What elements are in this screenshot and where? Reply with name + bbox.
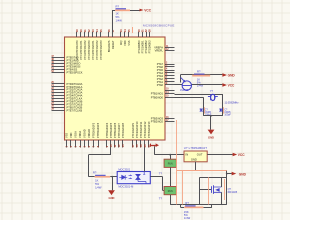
wire crystal loop bottom — [203, 115, 223, 117]
U1 left pin 25 (PTD5/TCLKA) — [51, 97, 82, 101]
resistor R? (bottom sense) — [184, 201, 203, 208]
U1 right pin 14 (PTB1/AD1) — [151, 91, 175, 96]
power port GND (bottom-left, down arrow) — [108, 190, 115, 200]
U1 left pin 51 (PTE4/SS) — [51, 68, 77, 72]
wire supply to regulator IN — [155, 146, 185, 155]
svg-text:5%: 5% — [95, 182, 99, 186]
U1 bottom pin 59 (PTF3/AD1P11) — [139, 121, 143, 147]
U1 bottom pin 6 (VDDAD) — [87, 129, 91, 148]
U1 top pin 33 (IRQ) — [119, 29, 123, 45]
U1 top pin 32 (PTG2/KBI2) — [144, 29, 148, 54]
wire drops to bottom resistor — [181, 205, 212, 208]
transistor Q? MOSFET — [212, 185, 222, 194]
svg-text:MOC3021-M: MOC3021-M — [118, 185, 133, 189]
U1 left pin 47 (PTE0/TxD) — [51, 55, 78, 60]
U1 left pin 29 (PTE7/TCLKB) — [51, 108, 82, 112]
svg-text:PTF2/AD1P10: PTF2/AD1P10 — [135, 121, 139, 138]
wire sensor T? to sensor T? — [170, 167, 172, 186]
wire supply rail to sensor T? — [169, 154, 171, 159]
highlighted net wire (vertical long) — [176, 120, 178, 205]
wire optocoupler output to sensor T? — [150, 177, 164, 191]
wire sensor bottom to bottom rail — [170, 195, 172, 205]
highlighted net wire (vertical 2) — [182, 170, 184, 204]
highlighted net wire (horizontal) — [177, 170, 227, 172]
svg-text:PTB0/AD0: PTB0/AD0 — [151, 95, 164, 99]
U1 right pin 12 (VREFL) — [155, 49, 175, 53]
resistor R? (right, to GND) — [192, 70, 210, 77]
svg-text:T?: T? — [159, 197, 163, 201]
svg-text:RUN: RUN — [168, 164, 173, 166]
svg-text:PTC3/TPM2CH0: PTC3/TPM2CH0 — [87, 40, 91, 60]
U1 bottom pin 60 (PTF4/AD1P12) — [143, 121, 147, 148]
R? value labels (right) — [197, 77, 204, 87]
wire left vertical of crystal loop — [203, 97, 205, 116]
svg-text:PTA0: PTA0 — [157, 83, 164, 87]
svg-text:12: 12 — [117, 144, 121, 147]
wire right vertical of crystal loop — [222, 94, 224, 116]
Y? value 11.0592MHz — [225, 101, 240, 104]
U1 top pin 31 (PTG1/KBI1) — [140, 29, 144, 54]
svg-text:1K: 1K — [95, 179, 98, 183]
U1 top pin 39 (PTC0/TPM1CH0) — [75, 29, 79, 60]
svg-text:41: 41 — [83, 29, 87, 32]
U? value MOC3021-M — [118, 185, 133, 189]
svg-text:30: 30 — [137, 29, 141, 32]
svg-text:PTG1/KBI1: PTG1/KBI1 — [141, 40, 145, 53]
U1 bottom pin 11 (PTB6/AD1P6) — [113, 122, 117, 147]
svg-text:IRQ: IRQ — [119, 40, 123, 45]
svg-text:GND: GND — [239, 172, 247, 176]
svg-text:PTB1/AD1: PTB1/AD1 — [151, 92, 164, 96]
R? value labels (opto series) — [95, 179, 102, 190]
svg-text:R?: R? — [116, 4, 120, 8]
photo device D? (circle symbol) — [181, 77, 192, 90]
U1 top pin 43 (PTC4/TPM2CH1) — [91, 29, 95, 60]
svg-text:PTF5/AD1P13: PTF5/AD1P13 — [147, 121, 151, 138]
U1 bottom pin 61 (PTF5/AD1P13) — [147, 121, 151, 148]
svg-text:PTC1/TPM1CH1: PTC1/TPM1CH1 — [79, 40, 83, 60]
U1 top pin 34 (VDD) — [123, 29, 127, 46]
U1 top pin 41 (PTC2/TPM1CH2) — [83, 29, 87, 60]
svg-text:T?: T? — [159, 172, 163, 176]
sensor T? (lower green box) — [164, 187, 176, 195]
T? designator (lower) — [159, 197, 163, 201]
power port GND (crystal, down arrow) — [208, 130, 215, 140]
svg-text:VDD: VDD — [123, 40, 127, 46]
regulator U? L7805 body — [184, 151, 207, 162]
svg-text:GND: GND — [109, 196, 115, 200]
U1 top pin 30 (PTG0/KBI0) — [137, 29, 141, 54]
wire drain up / source down — [221, 177, 223, 204]
U1 top pin 42 (PTC3/TPM2CH0) — [87, 29, 91, 60]
resistor R? (RESET pull-up) — [115, 4, 130, 11]
svg-text:VDDAD: VDDAD — [87, 129, 91, 138]
no-ERC marker on top pin — [132, 27, 134, 33]
wire regulator OUT to VCC — [207, 154, 232, 156]
svg-text:VCC: VCC — [144, 8, 151, 12]
svg-text:PTB2/AD2: PTB2/AD2 — [151, 120, 164, 124]
svg-text:43: 43 — [91, 29, 95, 32]
svg-text:42: 42 — [87, 29, 91, 32]
U1 right pin 10 (stub) — [165, 89, 175, 91]
U1 right pin 2 (PTA7) — [157, 62, 175, 66]
svg-text:VDD: VDD — [69, 132, 73, 138]
svg-text:PTB7/AD1P7: PTB7/AD1P7 — [117, 122, 121, 138]
svg-text:5%: 5% — [116, 15, 120, 19]
U1 bottom pin 58 (PTF2/AD1P10) — [135, 121, 139, 148]
U1 bottom pin 13 (PTF0/AD1P8) — [121, 122, 125, 147]
svg-text:PTG3/KBI3: PTG3/KBI3 — [148, 40, 152, 53]
svg-text:VSSA: VSSA — [74, 131, 78, 138]
power port GND (right of regulator) — [232, 172, 247, 177]
U1 left pin 21 (PTD1/TCH1A) — [51, 85, 82, 89]
svg-text:PTC4/TPM2CH1: PTC4/TPM2CH1 — [91, 40, 95, 60]
U1 right pin 8 (PTA1) — [157, 80, 175, 84]
svg-text:39: 39 — [75, 29, 79, 32]
svg-text:U? L7805ABD2T: U? L7805ABD2T — [184, 146, 208, 150]
U1 bottom pin 12 (PTB7/AD1P7) — [117, 122, 121, 147]
U? label MOC3021 — [118, 168, 130, 172]
svg-text:PTB3/AD1P3: PTB3/AD1P3 — [96, 122, 100, 138]
svg-text:VSS: VSS — [65, 133, 69, 138]
U1 bottom pin 3 (VSSA) — [73, 131, 77, 148]
highlighted net wire (vertical 4) — [208, 177, 210, 204]
U1 bottom pin 10 (PTB5/AD1P5) — [109, 122, 113, 147]
power port GND (right, arrow) — [222, 73, 235, 77]
U1 right pin 4 (PTA5) — [157, 67, 175, 72]
svg-text:VREFL: VREFL — [155, 49, 164, 53]
svg-text:OUT: OUT — [197, 153, 203, 157]
wire regulator GND down and right — [196, 162, 227, 177]
U1 left pin 48 (PTE1/RxD) — [51, 58, 79, 63]
svg-text:R?: R? — [93, 170, 97, 174]
svg-text:1/4W: 1/4W — [116, 18, 123, 22]
U1 bottom pin 4 (VDDA) — [78, 131, 82, 148]
svg-text:Y?: Y? — [210, 89, 214, 93]
svg-text:PTF3/AD1P11: PTF3/AD1P11 — [139, 121, 143, 138]
svg-text:GND: GND — [191, 158, 197, 162]
wire node A vertical from GND-resistor run down to photo device — [180, 75, 182, 83]
U1 top pin 40 (PTC1/TPM1CH1) — [79, 29, 83, 60]
svg-text:33: 33 — [119, 29, 123, 32]
power port VCC (regulator output) — [233, 153, 246, 157]
svg-text:PTF4/AD1P12: PTF4/AD1P12 — [143, 121, 147, 138]
U1 left pin 27 (PTD7/TCH1B) — [51, 102, 82, 106]
U1 bottom pin 8 (PTB3/AD1P3) — [96, 122, 100, 147]
svg-text:PTG2/KBI2: PTG2/KBI2 — [144, 40, 148, 53]
U1 right pin 17 (PTB2/AD2) — [151, 120, 175, 124]
U1 left pin 50 (PTE3/MOSI) — [51, 65, 80, 69]
svg-text:1/4W: 1/4W — [95, 186, 102, 190]
U1 left pin 22 (PTD2/TCH2A) — [51, 88, 82, 92]
svg-text:MC9S08GB60CPUE: MC9S08GB60CPUE — [143, 23, 175, 27]
svg-text:PTB2/AD1P2: PTB2/AD1P2 — [92, 122, 96, 138]
capacitor C? (right load cap) — [219, 107, 231, 116]
wire gate run — [200, 189, 212, 191]
U1 top pin 36 (BKGD/MS) — [107, 29, 111, 52]
wire to GND port (right) — [226, 173, 232, 175]
U1 right pin 6 (PTA3) — [157, 74, 175, 78]
U1 bottom pin 7 (PTB2/AD1P2) — [91, 122, 95, 147]
svg-text:60: 60 — [143, 144, 147, 147]
wire RESET pin to pull-up resistor — [113, 10, 140, 32]
svg-text:1N4148: 1N4148 — [180, 90, 189, 92]
T? designator (upper) — [159, 172, 163, 176]
svg-text:11: 11 — [113, 144, 117, 147]
MCU U1 — [65, 37, 166, 140]
wire MCU pin to optocoupler top — [144, 148, 146, 172]
U1 right pin 15 (PTB0/AD0) — [151, 95, 175, 99]
svg-text:38: 38 — [147, 29, 151, 32]
U1 bottom pin 57 (PTF1/AD1P9) — [131, 122, 135, 147]
U1 left pin 20 (PTD0/TCH0A) — [51, 82, 82, 86]
svg-text:35: 35 — [127, 29, 131, 32]
svg-text:1/4W: 1/4W — [184, 216, 191, 220]
svg-text:PTC6/TPM2CH3: PTC6/TPM2CH3 — [99, 40, 103, 60]
svg-text:PTB6/AD1P6: PTB6/AD1P6 — [113, 122, 117, 138]
svg-text:57: 57 — [131, 144, 135, 147]
svg-text:BKGD/MS: BKGD/MS — [107, 40, 111, 52]
U1 left pin 49 (PTE2/MISO) — [51, 61, 80, 66]
svg-text:R?: R? — [197, 70, 201, 74]
wire MOSFET loop top — [200, 177, 227, 179]
R? value labels 1K 5% 1/4W — [116, 11, 123, 22]
svg-text:VCC: VCC — [238, 153, 245, 157]
wire resistor run to GND port — [180, 74, 222, 76]
svg-text:11.0592MHz: 11.0592MHz — [225, 101, 240, 104]
svg-text:58: 58 — [135, 144, 139, 147]
U1 right pin 16 (PTB3/AD3) — [151, 117, 175, 121]
Q? designator and value IRF1405 — [228, 188, 238, 194]
svg-text:VCC: VCC — [228, 83, 235, 87]
power port VCC (right, arrow) — [222, 83, 235, 87]
U1 right pin 5 (PTA4) — [157, 71, 175, 75]
svg-text:31: 31 — [140, 29, 144, 32]
wire VCC run through photo device D1 — [175, 84, 223, 86]
svg-text:1K: 1K — [116, 11, 119, 15]
wire MCU pin to series resistor (zigzag) — [88, 148, 111, 177]
highlighted net wire (vertical 3) — [224, 179, 226, 200]
wire bottom rail — [170, 204, 227, 206]
svg-text:RESET: RESET — [111, 40, 115, 49]
resistor R? (opto series) — [93, 170, 110, 177]
wire MOSFET loop right vertical — [226, 177, 228, 204]
wire MOSFET loop left vertical — [199, 177, 201, 204]
wire XTAL run (lower) — [175, 97, 204, 99]
svg-text:GND: GND — [208, 136, 214, 140]
U1 top pin 37 (RESET) — [111, 29, 115, 49]
svg-text:VDDA: VDDA — [78, 131, 82, 138]
svg-text:MOC3021: MOC3021 — [118, 168, 130, 172]
U1 right pin 11 (VREFH) — [154, 46, 174, 50]
svg-text:36: 36 — [107, 29, 111, 32]
U1 left pin 52 (PTE5/SPSCK) — [51, 71, 83, 75]
svg-text:PTF0/AD1P8: PTF0/AD1P8 — [121, 122, 125, 138]
U1 left pin 28 (PTE6/TCH2B) — [51, 105, 82, 109]
svg-text:PTC0/TPM1CH0: PTC0/TPM1CH0 — [75, 40, 79, 60]
svg-text:PTE5/SPSCK: PTE5/SPSCK — [67, 71, 83, 75]
U1 left pin 24 (PTD4/TCH4A) — [51, 93, 82, 98]
U1 right pin 9 (PTA0) — [157, 83, 175, 87]
capacitor C? (left load cap) — [200, 107, 212, 116]
svg-text:13: 13 — [121, 144, 125, 147]
U? designator L7805ABD2T — [184, 146, 208, 150]
svg-text:PTC5/TPM2CH2: PTC5/TPM2CH2 — [95, 40, 99, 60]
U1 left pin 26 (PTD6/TCH0B) — [51, 100, 82, 104]
svg-text:PTB4/AD1P4: PTB4/AD1P4 — [105, 122, 109, 138]
wire stub to GND — [210, 115, 212, 130]
svg-text:PTG0/KBI0: PTG0/KBI0 — [137, 40, 141, 53]
U1 top pin 45 (PTC6/TPM2CH3) — [99, 29, 103, 60]
power port supply arrow (input) — [151, 143, 160, 147]
sensor T? (upper green box) — [164, 159, 176, 167]
svg-text:VSSAD: VSSAD — [83, 129, 87, 138]
part number MC9S08GB60CPUE — [143, 23, 175, 27]
svg-text:R?: R? — [185, 201, 189, 205]
U1 bottom pin 2 (VDD) — [69, 132, 73, 147]
optocoupler U? MOC3021 — [117, 172, 150, 184]
U1 top pin 38 (PTG3/KBI3) — [147, 29, 151, 54]
U1 left pin 23 (PTD3/TCH3A) — [51, 91, 82, 95]
U1 top pin 44 (PTC5/TPM2CH2) — [95, 29, 99, 60]
svg-text:PTC2/TPM1CH2: PTC2/TPM1CH2 — [83, 40, 87, 60]
wire resistor to optocoupler — [110, 176, 117, 178]
svg-text:10: 10 — [109, 144, 113, 147]
svg-text:IN: IN — [186, 153, 189, 157]
U1 right pin 7 (PTA2) — [157, 77, 175, 81]
svg-text:45: 45 — [99, 29, 103, 32]
svg-text:100pF: 100pF — [224, 115, 231, 117]
svg-text:IRF1405: IRF1405 — [228, 191, 238, 194]
U1 bottom pin 9 (PTB4/AD1P4) — [105, 122, 109, 147]
svg-text:VSS: VSS — [127, 40, 131, 45]
svg-text:GND: GND — [228, 73, 236, 77]
U1 bottom pin 1 (VSS) — [64, 133, 68, 148]
U1 bottom pin 5 (VSSAD) — [82, 129, 86, 147]
power port VCC (top) — [140, 8, 152, 12]
svg-text:40: 40 — [79, 29, 83, 32]
svg-text:PTB5/AD1P5: PTB5/AD1P5 — [109, 122, 113, 138]
crystal Y? — [208, 89, 218, 100]
svg-text:44: 44 — [95, 29, 99, 32]
svg-text:PTE7/TCLKB: PTE7/TCLKB — [67, 108, 83, 112]
U1 top pin 35 (VSS) — [127, 29, 131, 46]
wire down to GND (opto input return) — [111, 176, 113, 191]
wire EXTAL run (upper) — [175, 94, 223, 96]
R? value labels (bottom) — [184, 210, 191, 220]
svg-text:34: 34 — [123, 29, 127, 32]
D? value label — [180, 90, 189, 92]
svg-text:32: 32 — [144, 29, 148, 32]
svg-text:RUN: RUN — [168, 191, 173, 193]
U1 right pin 3 (PTA6) — [157, 65, 175, 69]
svg-text:59: 59 — [139, 144, 143, 147]
svg-text:PTF1/AD1P9: PTF1/AD1P9 — [131, 122, 135, 138]
